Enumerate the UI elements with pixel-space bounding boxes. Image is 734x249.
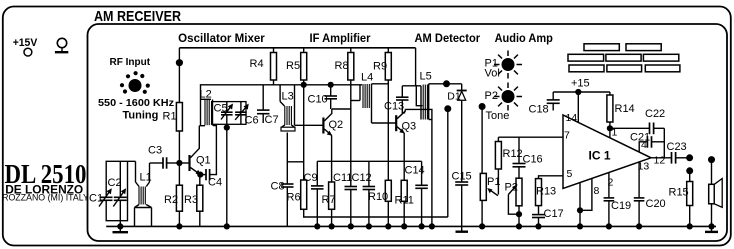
node pin3 ground bbox=[577, 223, 583, 229]
node R2 ground bbox=[176, 223, 182, 229]
svg-text:R7: R7 bbox=[322, 194, 336, 206]
resistor R15 bbox=[669, 171, 693, 227]
node C17 ground bbox=[535, 223, 541, 229]
ground symbol left bbox=[113, 226, 129, 232]
potentiometer P1 bbox=[480, 173, 500, 226]
inductor L2 bbox=[199, 89, 212, 126]
svg-text:C18: C18 bbox=[529, 104, 549, 116]
svg-text:C15: C15 bbox=[452, 171, 472, 183]
svg-text:Oscillator Mixer: Oscillator Mixer bbox=[178, 33, 265, 45]
svg-text:C21: C21 bbox=[630, 132, 650, 144]
wire pin 3 down bbox=[579, 183, 581, 227]
capacitor C23 bbox=[667, 141, 690, 164]
node C14 ground bbox=[419, 223, 425, 229]
node below gang box bbox=[224, 125, 230, 131]
node pin1 bbox=[607, 125, 613, 131]
resistor R10 bbox=[368, 180, 391, 226]
inductor L3 bbox=[280, 85, 295, 131]
svg-text:C16: C16 bbox=[523, 154, 543, 166]
ground bus rail bbox=[106, 225, 716, 227]
node speaker ground bbox=[708, 223, 714, 229]
node pin8 join bbox=[577, 207, 583, 213]
capacitor C12 bbox=[352, 161, 376, 226]
svg-text:P2: P2 bbox=[505, 182, 518, 194]
tuning gang box C5/C6 bbox=[212, 102, 246, 125]
svg-text:R1: R1 bbox=[163, 111, 177, 123]
+15 top rail wire bbox=[179, 47, 415, 49]
svg-text:L4: L4 bbox=[361, 71, 373, 83]
svg-text:+15: +15 bbox=[571, 78, 590, 90]
node C11 ground bbox=[348, 223, 354, 229]
svg-text:C2: C2 bbox=[108, 177, 122, 189]
svg-text:AM Detector: AM Detector bbox=[415, 33, 481, 45]
resistor R9 bbox=[373, 48, 391, 181]
svg-text:IF Amplifier: IF Amplifier bbox=[310, 33, 371, 45]
svg-text:R9: R9 bbox=[373, 60, 387, 72]
node R15 post bbox=[686, 167, 693, 174]
main bus wire (mixer collector row) bbox=[201, 85, 363, 99]
node R5 bottom bbox=[301, 82, 307, 88]
node antenna post bbox=[176, 59, 183, 66]
potentiometer P2 bbox=[505, 178, 523, 226]
svg-text:14: 14 bbox=[566, 112, 578, 124]
node output post bbox=[686, 154, 693, 161]
svg-text:L3: L3 bbox=[282, 91, 294, 103]
wire pin 8 bend bbox=[580, 178, 592, 210]
svg-text:Q2: Q2 bbox=[329, 119, 344, 131]
resistor R1 bbox=[176, 103, 182, 132]
svg-text:C10: C10 bbox=[308, 94, 328, 106]
resistor R6 bbox=[287, 180, 307, 209]
node C19 ground bbox=[606, 223, 612, 229]
svg-text:Vol: Vol bbox=[485, 68, 500, 80]
svg-text:C22: C22 bbox=[645, 108, 665, 120]
svg-text:8: 8 bbox=[594, 185, 600, 197]
svg-text:RF Input: RF Input bbox=[110, 57, 151, 68]
svg-text:C14: C14 bbox=[405, 165, 425, 177]
node tank ground bbox=[117, 223, 123, 229]
svg-text:C1: C1 bbox=[89, 193, 103, 205]
wire rail to R1 bbox=[178, 48, 180, 103]
svg-text:5: 5 bbox=[567, 168, 573, 180]
wire gang box to ground bbox=[226, 124, 228, 226]
svg-text:C6: C6 bbox=[245, 115, 259, 127]
transistor Q3 bbox=[372, 109, 417, 133]
node C10 top bbox=[328, 82, 334, 88]
op-amp IC1 bbox=[563, 115, 651, 189]
pot knob P1 Vol bbox=[485, 51, 523, 80]
wire rail down to L5 bbox=[415, 48, 417, 86]
svg-text:C9: C9 bbox=[304, 172, 318, 184]
diode D1 bbox=[447, 84, 466, 182]
node P2 ground bbox=[516, 223, 522, 229]
svg-text:R15: R15 bbox=[669, 187, 689, 199]
svg-text:C12: C12 bbox=[352, 172, 372, 184]
node C12 ground bbox=[366, 223, 372, 229]
svg-text:C5: C5 bbox=[214, 103, 228, 115]
svg-text:C13: C13 bbox=[384, 101, 404, 113]
svg-text:Q1: Q1 bbox=[196, 155, 211, 167]
node C9 ground bbox=[314, 223, 320, 229]
node R15 ground bbox=[687, 223, 693, 229]
svg-text:C11: C11 bbox=[333, 172, 352, 184]
resistor R8 bbox=[335, 48, 354, 162]
wire L5 primary loop bbox=[416, 86, 422, 106]
capacitor C2 bbox=[108, 161, 127, 226]
node Q1 base bbox=[176, 160, 182, 166]
capacitor C20 bbox=[634, 162, 666, 227]
inductor L4 bbox=[351, 71, 389, 123]
svg-text:C8: C8 bbox=[271, 181, 285, 193]
node detector post A bbox=[443, 80, 450, 87]
svg-text:ROZZANO (MI) ITALY: ROZZANO (MI) ITALY bbox=[2, 193, 89, 203]
svg-text:C4: C4 bbox=[208, 177, 222, 189]
wire Q3 collector down bbox=[405, 109, 432, 226]
svg-text:C19: C19 bbox=[611, 200, 631, 212]
wire Q2 emitter to R7 bbox=[331, 135, 333, 182]
loudspeaker LS bbox=[709, 160, 723, 227]
resistor R11 bbox=[395, 180, 414, 226]
svg-text:+15V: +15V bbox=[13, 37, 38, 49]
resistor R7 bbox=[322, 182, 336, 226]
svg-text:R8: R8 bbox=[335, 60, 349, 72]
svg-text:R3: R3 bbox=[184, 194, 198, 206]
svg-text:C7: C7 bbox=[265, 114, 279, 126]
node R10 ground bbox=[385, 223, 391, 229]
svg-text:D1: D1 bbox=[447, 91, 461, 103]
heatsink bars row 2 bbox=[568, 54, 679, 61]
wire R5 to R6 bbox=[303, 85, 305, 180]
capacitor C4 bbox=[200, 126, 222, 189]
resistor R3 bbox=[184, 176, 203, 227]
pot knob P2 Tone bbox=[485, 83, 523, 123]
wire R1 to base node bbox=[178, 131, 180, 163]
emitter bus wire B bbox=[317, 160, 421, 162]
svg-text:Tuning: Tuning bbox=[123, 110, 159, 122]
resistor R5 bbox=[286, 48, 307, 85]
svg-text:R14: R14 bbox=[615, 103, 635, 115]
svg-text:C17: C17 bbox=[544, 208, 564, 220]
capacitor C7 bbox=[257, 85, 279, 126]
capacitor C11 bbox=[333, 161, 357, 226]
output wire bbox=[651, 157, 672, 159]
node Q3 collector ground bbox=[429, 223, 435, 229]
capacitor C14 bbox=[405, 161, 428, 226]
svg-text:R10: R10 bbox=[368, 191, 388, 203]
node P2 wiper join bbox=[516, 211, 522, 217]
svg-text:P2: P2 bbox=[485, 90, 498, 102]
svg-text:C23: C23 bbox=[667, 141, 687, 153]
node C20 ground bbox=[636, 223, 642, 229]
+15V terminal circle bbox=[24, 48, 32, 56]
capacitor C8 bbox=[271, 162, 294, 227]
svg-text:R4: R4 bbox=[250, 58, 264, 70]
inductor L1 bbox=[135, 161, 152, 226]
capacitor C15 bbox=[452, 171, 472, 232]
resistor R13 bbox=[536, 176, 564, 215]
node speaker post bbox=[708, 156, 715, 163]
svg-text:R2: R2 bbox=[164, 194, 178, 206]
capacitor C18 bbox=[529, 92, 560, 116]
wire post B to sub-rail bbox=[447, 109, 449, 217]
capacitor C3 bbox=[148, 145, 179, 169]
svg-text:IC 1: IC 1 bbox=[589, 149, 611, 163]
+15 supply wire bbox=[553, 91, 610, 93]
ground jack symbol bbox=[55, 38, 68, 52]
node amp input post bbox=[479, 103, 486, 110]
svg-text:R13: R13 bbox=[536, 186, 556, 198]
tuning knob bbox=[120, 71, 150, 94]
ground symbol right bbox=[705, 226, 718, 232]
capacitor C19 bbox=[604, 173, 632, 227]
wire Q3 emitter to R11 bbox=[403, 133, 405, 180]
resistor R12 bbox=[495, 137, 522, 194]
wire L3 to C8/R6 bbox=[287, 133, 303, 162]
wire pin 7 input bbox=[498, 136, 563, 138]
heatsink bars row 1 bbox=[584, 44, 661, 51]
svg-text:7: 7 bbox=[564, 130, 570, 142]
capacitor C5 bbox=[214, 102, 234, 125]
feedback wire bbox=[663, 128, 665, 158]
ground symbol center bbox=[456, 230, 469, 232]
wire L5 primary top bbox=[402, 85, 421, 87]
svg-text:C20: C20 bbox=[646, 198, 666, 210]
transistor Q2 bbox=[295, 109, 344, 136]
node R7 ground bbox=[329, 223, 335, 229]
capacitor C22 bbox=[610, 108, 665, 134]
node gang ground bbox=[224, 223, 230, 229]
capacitor C1 bbox=[89, 188, 113, 206]
svg-text:C3: C3 bbox=[148, 145, 162, 157]
svg-text:R11: R11 bbox=[395, 195, 414, 207]
wire Q2 collector to R8 node bbox=[332, 108, 351, 110]
emitter network sub-rail bbox=[304, 209, 448, 217]
svg-text:Audio Amp: Audio Amp bbox=[495, 33, 553, 45]
heatsink bars row 3 bbox=[569, 65, 680, 72]
node P1 ground bbox=[479, 223, 485, 229]
svg-text:Tone: Tone bbox=[486, 110, 510, 122]
resistor R2 bbox=[164, 163, 182, 226]
capacitor C9 bbox=[304, 161, 324, 226]
resistor R4 bbox=[250, 48, 277, 85]
svg-text:AM RECEIVER: AM RECEIVER bbox=[94, 8, 181, 25]
node detector post B bbox=[444, 105, 451, 112]
wire V+ pin 14 bbox=[577, 92, 579, 123]
svg-text:Q3: Q3 bbox=[402, 121, 417, 133]
capacitor C21 bbox=[630, 132, 664, 153]
inner panel border bbox=[88, 24, 728, 241]
node Q1 emitter bbox=[197, 172, 203, 178]
capacitor C16 bbox=[513, 137, 543, 178]
inductor L5 bbox=[420, 71, 462, 120]
svg-text:R6: R6 bbox=[287, 192, 301, 204]
tuning gang box C1/C2 bbox=[106, 161, 135, 220]
resistor R14 bbox=[607, 92, 635, 138]
capacitor C6 bbox=[235, 102, 258, 127]
node +15 bbox=[575, 89, 581, 95]
transistor Q1 bbox=[179, 126, 210, 175]
capacitor C10 bbox=[308, 85, 338, 109]
svg-text:12: 12 bbox=[654, 155, 666, 167]
svg-text:550 - 1600 KHz: 550 - 1600 KHz bbox=[98, 98, 174, 109]
wire post to P1 bbox=[481, 107, 483, 174]
svg-text:L5: L5 bbox=[420, 71, 432, 83]
capacitor C13 bbox=[384, 86, 409, 113]
svg-text:R5: R5 bbox=[286, 60, 300, 72]
capacitor C17 bbox=[532, 208, 564, 226]
node R11 ground bbox=[401, 223, 407, 229]
